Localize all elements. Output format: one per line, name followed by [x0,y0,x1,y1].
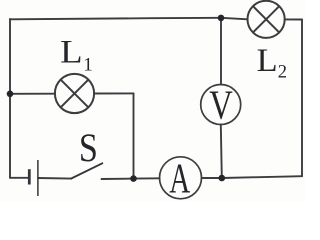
voltmeter V circle [201,85,241,125]
svg-text:S: S [79,125,98,170]
lamp L1 [55,74,94,113]
switch blade [71,163,102,178]
svg-text:A: A [169,157,190,202]
node J2: top junction dot [218,15,225,22]
svg-text:L: L [257,43,278,79]
wire V branch bottom [221,124,222,178]
wire top-left to J2 [10,18,221,20]
svg-text:L: L [60,35,82,71]
wire bottom-right corner to J3 [222,176,302,178]
battery short plate (negative) [28,169,31,184]
node J1: bottom junction dot at L1 branch [130,175,137,182]
node J3: bottom junction dot at V branch [219,175,226,182]
wire V branch top [220,18,222,85]
wire battery to bottom-left corner [10,177,29,179]
wire J1 to switch contact [102,178,134,180]
wire right side [301,20,303,177]
ammeter A circle [160,157,202,199]
wire ammeter to J1 [134,177,160,179]
node: junction dot on left wire [7,91,14,98]
wire J2 to L2 [221,18,248,20]
lamp L2 [248,1,285,38]
wire L2 to top-right corner [285,18,302,20]
battery long plate (positive) [37,160,39,196]
wire J3 to ammeter [202,177,223,179]
wire L1 branch left [10,93,55,95]
svg-text:V: V [209,82,233,128]
svg-text:2: 2 [278,62,287,82]
wire switch pivot to battery [38,177,71,180]
wire L1 branch down [133,93,135,178]
wire L1 to corner [94,92,133,94]
wire left side [9,19,11,178]
svg-text:1: 1 [83,54,93,75]
